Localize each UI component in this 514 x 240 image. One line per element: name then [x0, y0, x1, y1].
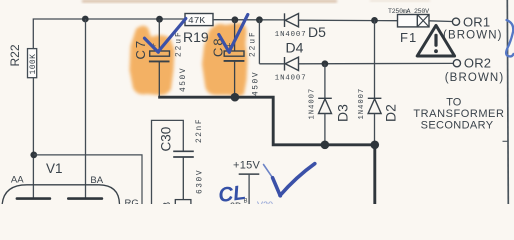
wire: D2 bottom lead: [374, 114, 376, 145]
terminal OR2: [453, 60, 460, 67]
svg-text:450V: 450V: [253, 71, 261, 96]
svg-text:(BROWN): (BROWN): [445, 72, 504, 84]
+15V supply: [233, 159, 261, 204]
resistor below C30 (partially cut): [175, 200, 191, 210]
svg-text:450V: 450V: [180, 67, 188, 92]
svg-text:22uF: 22uF: [250, 30, 258, 57]
svg-text:22nF: 22nF: [196, 118, 204, 143]
wire: R22 top lead and top rail to R19: [33, 19, 185, 49]
tube V1 left plate: [16, 197, 52, 200]
junction: top rail to V1 grid column: [82, 16, 89, 23]
wire: D5 to fuse F1: [299, 19, 398, 22]
wire: D3 bottom lead: [324, 114, 326, 145]
svg-text:RG: RG: [125, 198, 139, 204]
junction: D2 to bus: [371, 141, 380, 150]
scanner smudge top edge (decorative): [82, 0, 430, 2]
fuse F1: [398, 15, 430, 27]
wire: C30 branch: [152, 120, 184, 204]
svg-text:1N4007: 1N4007: [309, 88, 317, 120]
wire: to RG pin of V1: [34, 155, 142, 204]
svg-text:47K: 47K: [188, 15, 205, 26]
wire: fuse to OR1 terminal: [429, 20, 452, 23]
wire: top rail R19 to D5: [213, 19, 285, 21]
svg-text:F1: F1: [400, 30, 417, 45]
wire: branch down to D4: [258, 20, 260, 64]
svg-text:CL: CL: [217, 181, 247, 204]
svg-text:OR2: OR2: [464, 56, 491, 71]
svg-text:T250mA 250V: T250mA 250V: [388, 8, 429, 15]
page border line: [507, 0, 508, 204]
tube V1 right plate: [67, 197, 103, 200]
tube V1 envelope: [2, 185, 120, 210]
wire: V1 column from top rail down to tube: [85, 19, 87, 198]
wire: D2 top lead: [374, 20, 376, 98]
resistor R19: [185, 14, 213, 26]
blue check bottom (approved mark): [264, 165, 273, 178]
svg-text:D2: D2: [383, 104, 399, 122]
junction: D5 output to D2 branch: [371, 17, 378, 24]
svg-text:630V: 630V: [196, 169, 204, 194]
svg-text:(BROWN): (BROWN): [443, 30, 502, 42]
svg-text:AA: AA: [11, 174, 24, 185]
junction: top rail to C7: [156, 16, 163, 23]
blue check over C7: [145, 19, 186, 53]
svg-text:V20: V20: [257, 200, 273, 204]
terminal OR1: [452, 18, 459, 25]
warning triangle: [417, 25, 454, 56]
junction: C8 to bus: [231, 93, 240, 102]
wire: R22 bottom lead down to V1: [32, 78, 34, 198]
svg-text:V1: V1: [46, 161, 63, 176]
svg-text:SECONDARY: SECONDARY: [421, 120, 494, 132]
svg-text:BA: BA: [90, 175, 103, 186]
wire: D4 to OR2 terminal: [299, 62, 454, 64]
svg-text:1N4007: 1N4007: [275, 75, 307, 83]
resistor R22: [28, 49, 37, 78]
svg-text:TRANSFORMER: TRANSFORMER: [413, 108, 504, 120]
junction: top rail to C8: [232, 16, 239, 23]
svg-text:50B5: 50B5: [29, 203, 53, 204]
svg-text:C7: C7: [133, 39, 148, 60]
svg-text:D5: D5: [308, 24, 326, 40]
diode D5: [285, 13, 299, 27]
wire: D4 left lead: [259, 63, 284, 65]
svg-text:100K: 100K: [29, 54, 38, 75]
capacitor C7: [149, 19, 170, 97]
svg-text:1N4007: 1N4007: [358, 88, 366, 120]
border tick mark: [503, 140, 509, 142]
note TO TRANSFORMER SECONDARY: [413, 97, 504, 132]
diode D3: [318, 98, 332, 113]
highlighter blob over C8: [202, 23, 248, 96]
diode D4: [285, 57, 299, 71]
svg-text:D3: D3: [335, 104, 351, 122]
svg-text:+15V: +15V: [233, 159, 261, 171]
junction: top rail to D4 branch: [256, 16, 263, 23]
svg-text:TO: TO: [446, 97, 461, 109]
thick bus: capacitor negative rail: [158, 97, 375, 204]
svg-text:OR1: OR1: [463, 14, 490, 29]
wire: D3 top lead: [324, 64, 326, 99]
svg-text:C30: C30: [159, 127, 174, 152]
junction: R22 / RG wire node: [30, 152, 37, 159]
diode D2: [368, 98, 382, 113]
svg-text:R19: R19: [183, 29, 209, 45]
highlighter blob over C7: [130, 26, 175, 95]
junction: D3 to bus: [321, 141, 330, 150]
capacitor C8: [224, 20, 245, 97]
svg-text:1N4007: 1N4007: [275, 31, 307, 39]
junction: D4 output to D3 branch: [322, 60, 329, 67]
svg-text:B: B: [162, 202, 173, 205]
capacitor C30: [173, 151, 194, 199]
svg-text:D4: D4: [286, 39, 304, 55]
svg-text:R22: R22: [8, 44, 22, 66]
blue pen squiggle top right: [506, 20, 513, 56]
blue check over C8: [219, 15, 248, 53]
